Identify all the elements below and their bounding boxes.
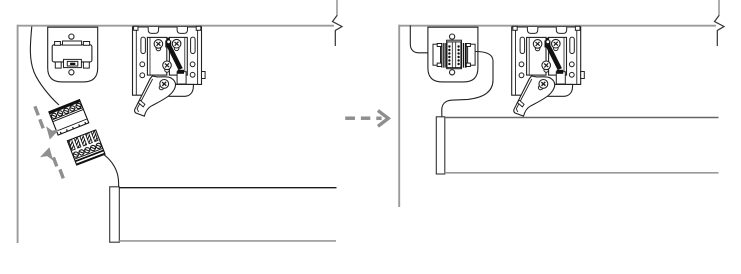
receptacle connector (loose, lower) [67,130,105,165]
socket screw hole bottom [69,70,74,75]
panel left edge (right panel) [398,25,400,207]
down arrowhead [43,126,59,141]
rail top line (right panel) [445,117,719,119]
wire from panel to plug connector [30,27,59,106]
socket latch top-left tab [55,42,61,46]
socket screw hole bottom (right) [450,70,455,75]
arm fold line [137,79,153,112]
left side tab [433,44,441,65]
plug terminal screws [51,103,82,120]
receptacle body [67,130,105,165]
receptacle pin bars (hatched) [68,130,98,150]
corner tabs [437,44,442,47]
screw dots right column [457,45,459,65]
plate hole left lower [140,73,145,78]
center body [447,42,461,68]
plate foot piece [168,84,194,96]
panel top edge (right panel) [399,25,716,27]
screw top-left [154,40,163,51]
center dashed arrow (step transition) [345,116,381,120]
panel left edge (left panel) [17,25,19,243]
mounting bracket (left panel) [133,26,206,116]
socket latch bottom-center piece [64,59,82,67]
bracket back plate [133,27,202,95]
receptacle screws [72,142,101,157]
plate side slot right [191,37,196,53]
plate folded edge lines [136,27,197,95]
switch right box inner line [184,37,186,75]
black lever pin [167,40,170,43]
bottom tab [447,65,462,69]
up arrowhead [40,146,56,161]
socket latch top-center tab [63,41,82,45]
switch body left box [147,37,166,75]
plate hole right upper [190,62,195,67]
switch left box inner line [149,37,151,75]
rail end cap (left panel) [110,187,120,242]
plug bottom ticks [60,122,85,134]
sub box below right [177,72,186,84]
socket latch bottom-left tab [55,62,61,68]
right contact bar [461,43,467,68]
black lever head [165,40,171,47]
panel top edge (left panel) [17,25,334,27]
rail top line (left panel) [119,187,336,189]
mounting bracket (right panel) [512,26,585,116]
center arrowhead [378,111,388,127]
wire from panel to plugged connector (right panel) [410,26,433,53]
panel break mark (right panel) [718,0,720,16]
plug mating face band [49,100,81,115]
plate top slot right [177,27,187,33]
dashed arrow pointing down (mating direction) [35,106,43,128]
black lever bar [167,45,183,70]
rail end cap (right panel) [436,117,445,174]
wire from receptacle to rail [103,154,119,187]
pivot screw [159,80,168,90]
socket latch release button [70,63,75,65]
plate right side tab [202,72,206,79]
receptacle body bands [74,148,102,159]
arm slot [138,100,145,107]
socket latch release button frame [67,61,78,66]
socket screw hole top [69,34,74,39]
socket latch top-right tab [83,42,89,46]
black lever notch [167,38,170,41]
socket latch bottom-right tab [83,62,89,68]
rail bottom line (left panel) [119,240,336,242]
screw middle [163,61,172,72]
plate hole right lower [190,72,195,77]
plate top slot left [148,27,158,33]
screw dots left column [448,45,450,65]
plug body [49,100,89,135]
screw top-right [172,39,181,50]
plug connector (loose, upper) [49,100,89,135]
plug body lines [52,108,87,131]
panel break mark (left panel) [336,0,338,16]
right side tab [468,44,476,65]
lever arm and cam [135,76,176,116]
plate hole left upper [140,62,145,67]
socket screw hole top (right) [450,34,455,39]
plate corner tab left [134,26,138,30]
left contact bar [441,43,447,68]
switch body right box [169,37,187,75]
rail bottom line (right panel) [445,172,719,174]
black lever foot [177,70,184,74]
socket plate (left panel) [48,27,98,82]
socket latch body [52,45,92,62]
plate side slot left [141,37,146,53]
wire from plugged connector to rail (right panel) [442,52,493,117]
plugged connector assembly [433,40,475,68]
top tab [447,40,462,44]
socket plate (right panel) [428,27,478,82]
plate corner tab right [196,26,201,30]
